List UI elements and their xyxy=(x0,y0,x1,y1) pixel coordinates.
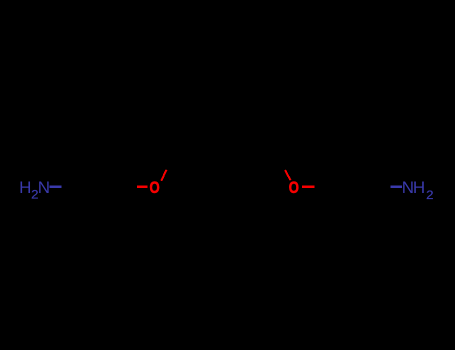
bond CH2-ring2 left (black) xyxy=(172,159,188,187)
bond O-CH2 left carbon half (black) xyxy=(166,159,172,170)
ether bond C4-O (red half) xyxy=(137,186,147,188)
svg-text:O: O xyxy=(150,179,160,197)
ether bond O-CH2 left (red half) xyxy=(161,170,166,181)
bond C4'-N carbon half (black) xyxy=(380,186,390,188)
bond N-C1 carbon half (black) xyxy=(62,185,76,188)
amine N-H2N bond (blue half) xyxy=(50,185,62,187)
amine bond C4'-N right (blue half) xyxy=(390,186,402,188)
benzene ring 1 (left, black on black) xyxy=(76,164,129,211)
benzene ring 3 (right, black on black) xyxy=(327,164,380,211)
bond ring2-CH2 right (black) xyxy=(267,160,280,188)
svg-text:H: H xyxy=(19,178,31,197)
svg-text:H: H xyxy=(413,178,425,197)
svg-text:2: 2 xyxy=(426,188,434,202)
svg-text:N: N xyxy=(38,178,50,197)
bond CH2-O right carbon half (black) xyxy=(280,160,286,171)
bond O-C1' carbon half (black) xyxy=(315,186,328,189)
bond C4-O carbon half (black) xyxy=(129,185,138,187)
ether bond O-C1' (red half) xyxy=(302,186,314,188)
svg-text:O: O xyxy=(289,179,299,197)
benzene ring 2 (central, black on black) xyxy=(188,173,267,210)
ether bond CH2-O right (red half) xyxy=(285,170,291,180)
